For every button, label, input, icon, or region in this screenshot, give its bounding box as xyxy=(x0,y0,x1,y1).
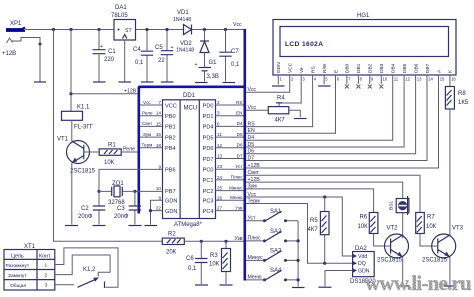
svg-text:Конт.: Конт. xyxy=(39,253,51,259)
svg-text:C6: C6 xyxy=(186,256,194,262)
svg-text:0,1: 0,1 xyxy=(135,60,144,66)
svg-text:0,1: 0,1 xyxy=(231,62,240,68)
battery G1 3.3V xyxy=(195,53,219,82)
wire DD1 pin15 PB1 from bus xyxy=(140,125,163,127)
terminal block XT1 xyxy=(4,244,55,290)
svg-text:20пФ: 20пФ xyxy=(78,214,93,220)
wire R4 left to bus (Vcc) xyxy=(246,109,268,111)
svg-text:PD0: PD0 xyxy=(203,103,214,109)
wire bus to BS1 (+12V) xyxy=(246,182,403,198)
junction crystal left xyxy=(97,190,100,193)
switch SA2 (Плюс) xyxy=(246,229,298,242)
junction +12V/K1.1 node xyxy=(69,92,72,95)
svg-text:Плюс: Плюс xyxy=(231,175,243,180)
junction R5 top xyxy=(323,195,326,198)
svg-text:DB3: DB3 xyxy=(379,63,385,73)
svg-text:FL-3ГГ: FL-3ГГ xyxy=(74,125,94,131)
svg-text:www.li-ne.ru: www.li-ne.ru xyxy=(365,271,472,295)
resistor R1 10K xyxy=(99,143,121,167)
resistor R6 10K xyxy=(358,213,378,234)
ground (C7) xyxy=(223,82,236,84)
svg-text:D5: D5 xyxy=(248,142,255,148)
wire DD1 pin2 PD0 to bus (RS) xyxy=(216,104,244,106)
ground (C1) xyxy=(93,81,106,83)
wire DD1 PB6 to crystal xyxy=(99,169,163,191)
temperature sensor DA2 DS18B20 xyxy=(350,246,376,285)
svg-text:VCC: VCC xyxy=(165,103,177,109)
svg-text:DB2: DB2 xyxy=(368,63,374,73)
svg-text:27: 27 xyxy=(217,206,223,211)
wire HG1 pin5 R/W to ground xyxy=(323,75,325,85)
wire DA1 ground pin xyxy=(124,40,126,82)
junction R5 bottom / DQ xyxy=(323,262,326,265)
resistor R5 4K7 xyxy=(308,197,330,263)
wire HG1 pin15 A to bus (+12V) xyxy=(246,75,438,168)
svg-text:DB4: DB4 xyxy=(391,63,397,73)
svg-text:15: 15 xyxy=(440,76,445,81)
svg-text:ATMega8*: ATMega8* xyxy=(174,222,203,228)
ground (DD1) xyxy=(145,225,158,227)
wire DD1 GND pins to ground xyxy=(151,200,163,224)
wire XT1 pin3 to K1.2 common xyxy=(55,284,74,286)
svg-text:Уст: Уст xyxy=(235,164,243,169)
wire R8 to VT3 collector xyxy=(449,109,451,235)
svg-text:Узв: Узв xyxy=(235,205,243,210)
transistor VT1 2SC1815 xyxy=(57,137,96,175)
svg-text:12: 12 xyxy=(405,76,410,81)
svg-text:R6: R6 xyxy=(360,215,368,221)
svg-text:C3: C3 xyxy=(117,206,125,212)
svg-text:VT3: VT3 xyxy=(452,226,464,232)
svg-text:DB0: DB0 xyxy=(345,63,351,73)
wire VT3 emitter to ground xyxy=(449,257,451,285)
wire +12V long drop to R2 xyxy=(54,30,163,242)
wire HG1 pin3 Ve to R4 wiper xyxy=(279,75,301,107)
wire DD1 PB7 to crystal xyxy=(135,190,163,192)
wire HG1 pin13 DB6 to bus xyxy=(246,75,416,154)
svg-text:4К7: 4К7 xyxy=(308,227,319,233)
diode VD2 1N4148 xyxy=(176,30,209,54)
svg-text:PB4: PB4 xyxy=(165,146,176,152)
ground (DA2) xyxy=(319,286,332,288)
svg-text:+: + xyxy=(171,45,174,51)
svg-text:C1: C1 xyxy=(108,49,116,55)
switch SA1 (Уст) xyxy=(246,209,298,222)
bus (left vertical at DD1) xyxy=(138,88,141,214)
svg-text:BS1: BS1 xyxy=(389,201,395,210)
svg-text:D6: D6 xyxy=(248,149,255,155)
ground (VT1 emitter) xyxy=(65,225,78,227)
capacitor C4 0.1 xyxy=(133,28,153,82)
svg-text:+: + xyxy=(100,44,103,50)
svg-text:+12В: +12В xyxy=(248,163,261,169)
wire bus to DA2 DQ (Терм) xyxy=(246,204,353,264)
svg-text:RS: RS xyxy=(236,100,242,105)
wire R6 to VT2 base xyxy=(374,234,391,247)
svg-text:11: 11 xyxy=(217,132,222,137)
wire DD1 pin6 PD4 to bus (D4) xyxy=(216,125,244,127)
wire XT1 pin2 to K1.2 NC contact xyxy=(55,255,110,277)
svg-text:R2: R2 xyxy=(168,232,176,238)
ground (HG1 pin1) xyxy=(272,85,285,87)
svg-text:+12В: +12В xyxy=(248,177,261,183)
junction VD1 cathode node xyxy=(203,28,206,31)
svg-text:RS: RS xyxy=(310,66,316,73)
ground (G1) xyxy=(195,82,208,84)
svg-text:GDN: GDN xyxy=(165,209,177,215)
svg-text:D6: D6 xyxy=(237,143,243,148)
svg-text:VD1: VD1 xyxy=(177,10,189,16)
DD1 right pin names xyxy=(203,103,214,215)
svg-text:VCC: VCC xyxy=(288,62,294,73)
ground (VT3) xyxy=(444,285,457,287)
crystal ZQ1 32768 xyxy=(99,181,135,206)
svg-text:Ve: Ve xyxy=(299,67,305,73)
svg-text:GDN: GDN xyxy=(276,62,282,73)
capacitor C6 0.1 xyxy=(186,241,208,284)
wire switches common to ground xyxy=(297,221,299,287)
junction crystal right xyxy=(133,190,136,193)
svg-text:Разомкнут: Разомкнут xyxy=(6,263,30,269)
svg-text:1: 1 xyxy=(45,262,48,268)
svg-text:Терм: Терм xyxy=(248,198,261,204)
svg-text:PB6: PB6 xyxy=(165,168,176,174)
svg-text:VT2: VT2 xyxy=(387,226,399,232)
svg-text:R5: R5 xyxy=(310,218,318,224)
capacitor C2 20pF xyxy=(78,191,105,224)
wire HG1 pin12 DB5 to bus xyxy=(246,75,404,147)
svg-text:Меню: Меню xyxy=(230,195,243,200)
svg-text:DA1: DA1 xyxy=(115,5,127,11)
HG1 pin numbers 1-16 xyxy=(280,76,457,81)
wire R7 to VT3 base xyxy=(420,234,438,247)
svg-text:1К5: 1К5 xyxy=(458,100,469,106)
svg-text:Уст: Уст xyxy=(248,216,257,222)
wire R2 to bus (Узв) xyxy=(184,240,243,242)
svg-text:3: 3 xyxy=(45,283,48,289)
wire HG1 pin14 DB7 to bus xyxy=(246,75,427,161)
wire DD1 pin14 PB0 from bus xyxy=(140,115,163,117)
svg-text:Vcc: Vcc xyxy=(248,87,257,93)
svg-text:K1,2: K1,2 xyxy=(83,267,96,273)
svg-text:Узв: Узв xyxy=(234,236,242,242)
svg-text:D7: D7 xyxy=(248,155,255,161)
svg-text:DB1: DB1 xyxy=(356,63,362,73)
wire DD1 pin27 PC4 to bus (Узв) xyxy=(216,210,244,212)
svg-text:Замкнут: Замкнут xyxy=(8,273,27,279)
relay contact K1.2 xyxy=(78,267,105,288)
svg-text:G1: G1 xyxy=(209,60,218,66)
svg-text:E: E xyxy=(333,70,339,73)
ground (switches) xyxy=(292,287,305,289)
wire DD1 pin12 PD6 to bus (D6) xyxy=(216,147,244,149)
capacitor C3 20pF xyxy=(114,191,141,224)
svg-text:16: 16 xyxy=(451,76,456,81)
svg-text:1N4148: 1N4148 xyxy=(173,17,191,23)
svg-text:PB1: PB1 xyxy=(165,125,176,131)
wire VT1 base to R1 xyxy=(84,151,99,153)
svg-text:PC4: PC4 xyxy=(203,209,214,215)
svg-text:Минус: Минус xyxy=(229,185,243,190)
wire HG1 pin6 E to bus xyxy=(246,75,335,133)
wire bus to R7 (Свет) xyxy=(246,175,420,212)
wire DD1 pin18 PB4 from bus xyxy=(140,147,163,149)
ground (VT2) xyxy=(397,285,410,287)
svg-text:+12В: +12В xyxy=(2,51,16,57)
svg-text:PD1: PD1 xyxy=(203,114,214,120)
junction SA2 common xyxy=(297,239,300,242)
svg-text:PD5: PD5 xyxy=(203,135,214,141)
svg-text:PC1: PC1 xyxy=(203,178,214,184)
svg-text:78L05: 78L05 xyxy=(111,13,128,19)
svg-text:C5: C5 xyxy=(155,45,163,51)
svg-text:8: 8 xyxy=(158,195,161,200)
svg-text:Vcc: Vcc xyxy=(248,105,257,111)
svg-text:3: 3 xyxy=(217,111,220,116)
svg-text:Vcc: Vcc xyxy=(233,22,242,28)
svg-text:DB7: DB7 xyxy=(425,63,431,73)
svg-text:R/W: R/W xyxy=(322,63,328,73)
connector XP1 (power jack) xyxy=(6,21,40,44)
wire bus to R6 (Зум) xyxy=(246,189,374,213)
svg-text:Плюс: Плюс xyxy=(248,236,262,242)
svg-text:Зум: Зум xyxy=(143,132,151,137)
ground (C5) xyxy=(161,81,174,83)
resistor R7 10K xyxy=(416,213,437,234)
svg-text:K1,1: K1,1 xyxy=(77,105,90,111)
ground (C6) xyxy=(195,284,208,286)
ground (HG1 pin5) xyxy=(318,85,331,87)
svg-text:D4: D4 xyxy=(248,135,255,141)
svg-text:14: 14 xyxy=(156,111,162,116)
svg-text:RS: RS xyxy=(248,121,256,127)
wire R1 to bus (Реле) xyxy=(121,151,137,153)
junction on rail at x99 xyxy=(97,28,100,31)
wire DD1 pin23 PC0 to bus (Уст) xyxy=(216,168,244,170)
svg-text:DD1: DD1 xyxy=(183,93,196,99)
buzzer BS1 xyxy=(389,196,409,215)
svg-text:25: 25 xyxy=(217,186,223,191)
svg-text:7: 7 xyxy=(158,100,161,105)
transistor VT3 2SC1815 xyxy=(422,226,464,264)
svg-text:+12В: +12В xyxy=(124,88,137,94)
svg-text:EN: EN xyxy=(236,111,242,116)
svg-text:Минус: Минус xyxy=(248,255,264,261)
svg-text:Реле: Реле xyxy=(142,111,153,116)
svg-text:3,3В: 3,3В xyxy=(207,74,219,80)
svg-text:Vdd: Vdd xyxy=(358,254,367,260)
svg-text:13: 13 xyxy=(417,76,422,81)
resistor R8 1K5 xyxy=(445,75,468,109)
wire +12V drop to K1.1 xyxy=(70,30,72,112)
DD1 left pin numbers xyxy=(156,100,162,211)
wire DD1 pin25 PC2 to bus (Минус) xyxy=(216,190,244,192)
svg-text:DB6: DB6 xyxy=(413,63,419,73)
svg-text:PD4: PD4 xyxy=(203,125,214,131)
svg-text:13: 13 xyxy=(217,154,223,159)
svg-text:2SC1815: 2SC1815 xyxy=(377,258,403,264)
svg-text:PB0: PB0 xyxy=(165,114,176,120)
svg-text:10К: 10К xyxy=(358,224,369,230)
svg-text:22: 22 xyxy=(158,58,165,64)
resistor R3 10K xyxy=(209,241,231,284)
diode VD1 1N4148 xyxy=(173,10,192,35)
svg-text:2SC1815: 2SC1815 xyxy=(422,258,448,264)
junction on rail at x71 xyxy=(69,28,72,31)
voltage regulator DA1 78L05 xyxy=(111,5,136,40)
svg-text:PD7: PD7 xyxy=(203,157,214,163)
svg-text:Vcc: Vcc xyxy=(248,192,257,198)
svg-text:0,1: 0,1 xyxy=(188,266,197,272)
svg-text:23: 23 xyxy=(217,164,223,169)
svg-text:C4: C4 xyxy=(133,47,141,53)
wire DD1 pin7 VCC from bus xyxy=(140,104,163,106)
MCU DD1 ATMega8 xyxy=(163,93,216,228)
junction R3 node xyxy=(224,240,227,243)
resistor R2 20K xyxy=(162,232,184,256)
switch SA3 (Минус) xyxy=(246,249,298,262)
ground (C4) xyxy=(141,81,154,83)
svg-text:Реле: Реле xyxy=(123,147,135,153)
svg-text:6: 6 xyxy=(217,121,220,126)
wire HG1 pin2 VCC to bus xyxy=(246,75,290,92)
wire XT1 pin1 to K1.2 NO contact xyxy=(55,248,118,287)
wire +12V into bus xyxy=(71,93,138,95)
wire BS1 to VT2 collector xyxy=(402,213,404,239)
svg-text:DB5: DB5 xyxy=(402,63,408,73)
svg-text:10К: 10К xyxy=(104,160,115,166)
svg-text:PB2: PB2 xyxy=(165,135,176,141)
svg-text:PC3: PC3 xyxy=(203,199,214,205)
svg-text:D5: D5 xyxy=(237,132,243,137)
svg-text:9: 9 xyxy=(158,164,161,169)
svg-text:DQ: DQ xyxy=(358,261,366,267)
potentiometer R4 4K7 xyxy=(268,96,289,124)
DD1 right pin numbers xyxy=(217,100,223,211)
svg-text:GDN: GDN xyxy=(165,199,177,205)
HG1 pins 7-10 not connected xyxy=(345,75,383,89)
svg-text:14: 14 xyxy=(428,76,433,81)
svg-text:2SC1815: 2SC1815 xyxy=(70,169,96,175)
svg-text:Свет: Свет xyxy=(248,170,260,176)
svg-text:D7: D7 xyxy=(237,153,243,158)
wire bus to DA2 Vdd (Vcc) xyxy=(246,197,353,256)
svg-text:16: 16 xyxy=(156,132,162,137)
display HG1 LCD 1602A xyxy=(273,13,456,75)
ground (R4) xyxy=(294,118,307,120)
svg-text:12: 12 xyxy=(217,143,223,148)
svg-text:20К: 20К xyxy=(166,250,177,256)
svg-text:+: + xyxy=(195,62,198,68)
svg-text:PB7: PB7 xyxy=(165,189,176,195)
wire VT1 emitter to ground xyxy=(71,163,73,225)
svg-text:2: 2 xyxy=(217,100,220,105)
svg-text:Свет: Свет xyxy=(142,121,153,126)
ground (R3) xyxy=(220,284,233,286)
svg-text:R7: R7 xyxy=(427,215,435,221)
svg-text:15: 15 xyxy=(156,121,162,126)
svg-text:PC0: PC0 xyxy=(203,168,214,174)
svg-text:LCD 1602A: LCD 1602A xyxy=(285,41,323,48)
svg-text:18: 18 xyxy=(156,143,162,148)
svg-text:26: 26 xyxy=(217,195,223,200)
wire DD1 pin11 PD5 to bus (D5) xyxy=(216,136,244,138)
svg-text:MCU: MCU xyxy=(184,106,198,112)
svg-text:11: 11 xyxy=(394,76,399,81)
relay coil K1.1 FL-3FF xyxy=(62,105,94,131)
svg-text:10: 10 xyxy=(383,76,388,81)
wire K1.1 to VT1 collector xyxy=(71,120,73,141)
wire DA2 GND to ground xyxy=(325,271,353,287)
svg-text:HG1: HG1 xyxy=(357,13,370,19)
ground (C3) xyxy=(129,225,142,227)
svg-text:2: 2 xyxy=(45,272,48,278)
svg-text:ST: ST xyxy=(125,28,132,34)
capacitor C1 220 (electrolytic) xyxy=(93,30,117,82)
svg-text:R3: R3 xyxy=(210,253,218,259)
svg-text:Общая: Общая xyxy=(10,283,26,289)
svg-text:R4: R4 xyxy=(277,96,285,102)
wire DD1 pin16 PB2 from bus xyxy=(140,136,163,138)
junction on rail at x53 xyxy=(52,28,55,31)
wire HG1 pin11 DB4 to bus xyxy=(246,75,393,140)
svg-text:Терм: Терм xyxy=(142,143,153,148)
svg-text:10: 10 xyxy=(156,186,162,191)
svg-text:10К: 10К xyxy=(426,224,437,230)
svg-text:C2: C2 xyxy=(81,206,89,212)
wire DD1 pin3 PD1 to bus (EN) xyxy=(216,115,244,117)
DD1 left pin names xyxy=(165,103,177,215)
wire +12V top rail xyxy=(25,29,244,31)
wire DD1 pin26 PC3 to bus (Меню) xyxy=(216,199,244,201)
ground (XP1 sleeve) xyxy=(34,43,46,83)
svg-text:VT1: VT1 xyxy=(57,137,69,143)
wire HG1 pin4 RS to bus xyxy=(246,75,313,127)
svg-text:20пФ: 20пФ xyxy=(114,214,129,220)
svg-text:24: 24 xyxy=(217,175,223,180)
wire R4 right to ground xyxy=(289,110,301,117)
HG1 pin names xyxy=(276,62,454,73)
wire HG1 pin1 GND xyxy=(277,75,279,85)
bus (right vertical Vcc/signal bus) xyxy=(244,29,247,281)
svg-text:R8: R8 xyxy=(458,91,466,97)
svg-text:Зум: Зум xyxy=(248,184,258,190)
svg-text:Цепь: Цепь xyxy=(11,253,24,259)
junction GND pins xyxy=(149,209,152,212)
svg-text:Меню: Меню xyxy=(248,275,262,281)
wire DD1 pin13 PD7 to bus (D7) xyxy=(216,158,244,160)
ground (C2) xyxy=(93,225,106,227)
wire VT2 emitter to ground xyxy=(402,257,404,285)
svg-text:10К: 10К xyxy=(209,262,220,268)
switch SA4 (Меню) xyxy=(246,268,298,281)
transistor VT2 2SC1815 xyxy=(377,226,409,264)
svg-text:1N4148: 1N4148 xyxy=(176,48,194,54)
svg-text:EN: EN xyxy=(248,128,255,134)
DD1 right pin wire labels xyxy=(229,100,243,211)
svg-text:D4: D4 xyxy=(237,121,243,126)
junction C6 node xyxy=(200,240,203,243)
svg-text:VD2: VD2 xyxy=(180,41,192,47)
svg-text:XP1: XP1 xyxy=(10,21,22,27)
wire DD1 pin24 PC1 to bus (Плюс) xyxy=(216,179,244,181)
svg-text:Vcc: Vcc xyxy=(143,100,151,105)
capacitor C5 22 xyxy=(155,28,174,82)
junction SA4 common xyxy=(297,278,300,281)
svg-text:22: 22 xyxy=(156,206,162,211)
svg-text:220: 220 xyxy=(104,57,115,63)
svg-text:4К7: 4К7 xyxy=(275,118,286,124)
